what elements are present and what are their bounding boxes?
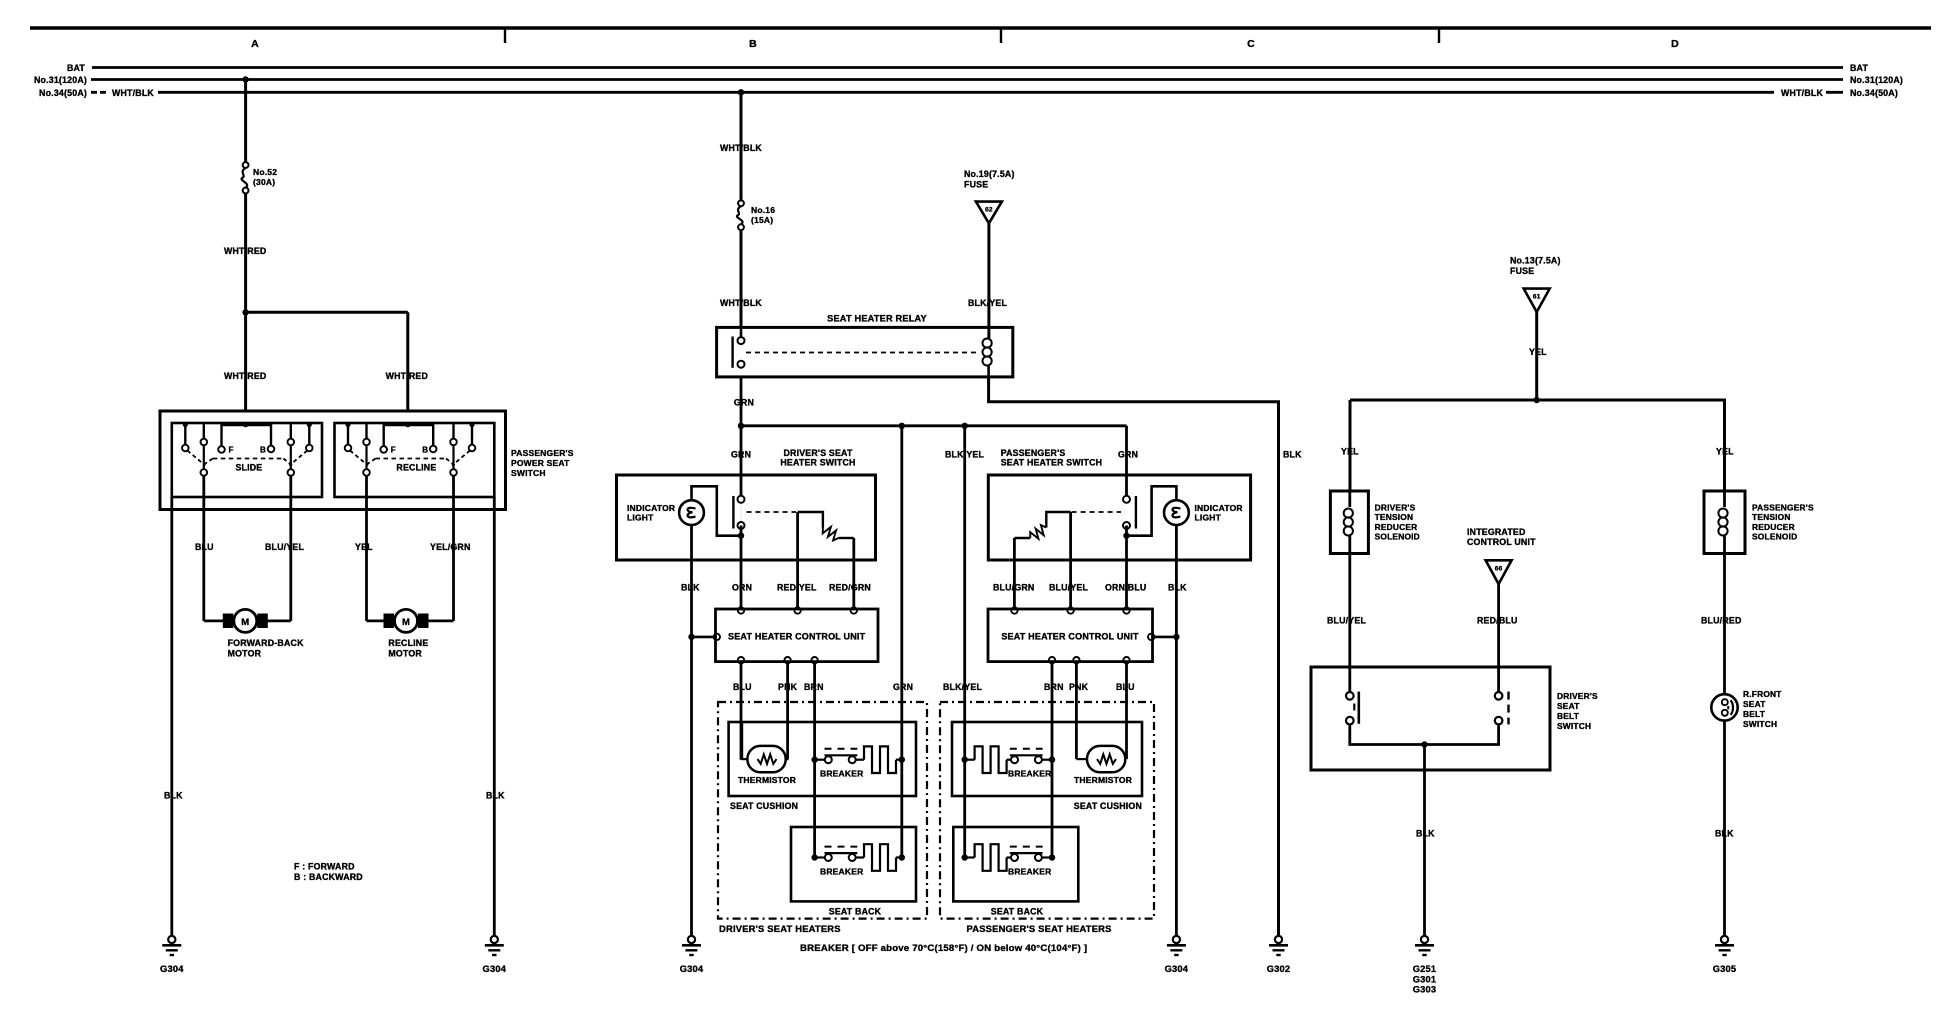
svg-text:YEL: YEL	[1716, 447, 1734, 457]
svg-text:WHT/BLK: WHT/BLK	[720, 143, 762, 153]
svg-text:REDUCER: REDUCER	[1375, 522, 1418, 532]
passenger thermistor leads	[1075, 750, 1078, 759]
wire GRN into passenger's switch	[1125, 426, 1128, 497]
wire YEL/GRN	[452, 476, 455, 615]
svg-text:FUSE: FUSE	[964, 180, 988, 190]
svg-text:WHT/BLK: WHT/BLK	[112, 88, 154, 98]
wire BLU/YEL (dash corner down)	[1069, 512, 1072, 608]
svg-text:SOLENOID: SOLENOID	[1752, 532, 1797, 542]
svg-text:LIGHT: LIGHT	[627, 513, 654, 523]
passenger indicator light bulb	[1164, 500, 1189, 525]
svg-text:BLU: BLU	[195, 542, 214, 552]
svg-text:RED/YEL: RED/YEL	[777, 583, 817, 593]
svg-text:GRN: GRN	[893, 682, 913, 692]
section tick B-C	[1000, 28, 1002, 43]
driver control unit terminals top	[738, 607, 744, 613]
svg-text:ORN: ORN	[732, 583, 752, 593]
svg-text:YEL: YEL	[355, 542, 373, 552]
passenger seat back breaker	[962, 854, 968, 860]
svg-text:TENSION: TENSION	[1375, 512, 1414, 522]
passenger bulb upper loop wire	[1129, 486, 1176, 535]
top border line	[30, 26, 1931, 30]
wire YEL fuse to split	[1535, 312, 1538, 400]
svg-text:RED/GRN: RED/GRN	[829, 583, 871, 593]
passenger's seat heaters dashed box	[940, 702, 1154, 919]
SLIDE left bracket	[184, 423, 186, 445]
svg-text:G251: G251	[1413, 964, 1437, 974]
svg-text:No.16: No.16	[751, 205, 775, 215]
svg-text:DRIVER'S SEAT HEATERS: DRIVER'S SEAT HEATERS	[719, 923, 841, 934]
svg-text:YEL: YEL	[1529, 347, 1547, 357]
svg-text:BAT: BAT	[67, 63, 85, 73]
node WHT/RED split	[242, 309, 248, 315]
svg-text:BELT: BELT	[1743, 709, 1766, 719]
wire BLU/YEL solenoid to belt switch	[1348, 554, 1351, 693]
wire RED/GRN down	[852, 538, 855, 608]
svg-text:No.31(120A): No.31(120A)	[1850, 75, 1903, 85]
svg-text:SEAT BACK: SEAT BACK	[991, 907, 1044, 917]
svg-text:C: C	[1247, 38, 1255, 50]
svg-text:ORN/BLU: ORN/BLU	[1105, 583, 1146, 593]
bus BAT	[92, 66, 1843, 69]
svg-text:BREAKER: BREAKER	[820, 866, 863, 876]
svg-text:D: D	[1671, 38, 1679, 50]
SLIDE center bracket	[222, 425, 272, 447]
ground G304 passenger switch	[1173, 936, 1180, 943]
svg-text:PASSENGER'S: PASSENGER'S	[511, 448, 574, 458]
wire BRN cushion to back passenger	[1051, 760, 1054, 858]
fuse No.19 triangle	[976, 202, 1002, 224]
svg-text:B: B	[749, 38, 757, 50]
wire GRN relay output	[740, 377, 743, 426]
svg-text:REDUCER: REDUCER	[1752, 522, 1795, 532]
wire split horizontal	[246, 311, 408, 314]
svg-text:WHT/RED: WHT/RED	[224, 371, 266, 381]
passenger cushion breaker	[962, 757, 968, 763]
svg-text:No.13(7.5A): No.13(7.5A)	[1510, 256, 1561, 266]
ground G302	[1275, 936, 1282, 943]
wire YEL right branch	[1723, 400, 1726, 491]
driver's seat heaters dashed box	[718, 702, 927, 919]
svg-text:BLK/YEL: BLK/YEL	[943, 682, 982, 692]
wire RED/YEL (dash corner down)	[796, 512, 799, 608]
wire YEL horizontal	[1350, 399, 1726, 402]
svg-text:(15A): (15A)	[751, 215, 773, 225]
passenger switch dashed arm	[1072, 511, 1121, 513]
motor leads	[202, 615, 205, 621]
wire WHT/RED right branch	[406, 312, 409, 411]
svg-text:HEATER SWITCH: HEATER SWITCH	[780, 457, 855, 467]
bus No.31(120A)	[91, 78, 1843, 81]
svg-text:SEAT CUSHION: SEAT CUSHION	[730, 801, 798, 811]
svg-text:BAT: BAT	[1850, 63, 1868, 73]
wire YEL	[365, 476, 368, 615]
wire WHT/RED fuse to split	[244, 193, 247, 312]
ground G304 recline	[491, 936, 498, 943]
section tick C-D	[1438, 28, 1440, 43]
passenger control unit terminals top	[1011, 607, 1017, 613]
passenger control unit right terminal wire	[1148, 634, 1154, 640]
wire BLK right (recline ground)	[493, 497, 496, 936]
driver control unit left terminal wire	[688, 634, 694, 640]
RECLINE movable contact dashes	[376, 458, 447, 460]
wire WHT/BLK bus to fuse No.16	[740, 92, 743, 200]
svg-text:BLU/GRN: BLU/GRN	[993, 583, 1034, 593]
svg-text:BLK: BLK	[1283, 450, 1302, 460]
bus No.34(50A) WHT/BLK	[158, 91, 1774, 94]
svg-text:No.52: No.52	[253, 167, 277, 177]
wire BLK passenger bulb to ground	[1175, 525, 1178, 936]
svg-text:G301: G301	[1413, 974, 1437, 984]
svg-text:BLU: BLU	[733, 682, 752, 692]
driver indicator light bulb	[679, 500, 704, 525]
driver seat back breaker	[811, 854, 817, 860]
svg-text:SWITCH: SWITCH	[511, 468, 546, 478]
wire BLK/YEL cushion to back	[963, 760, 966, 858]
svg-text:61: 61	[1533, 294, 1541, 301]
svg-text:B: B	[422, 446, 428, 455]
node on bus No.31	[242, 76, 248, 82]
svg-text:BLU/YEL: BLU/YEL	[1327, 616, 1366, 626]
wire BLK bulb to ground	[690, 525, 693, 936]
svg-text:No.31(120A): No.31(120A)	[34, 75, 87, 85]
svg-text:DRIVER'S: DRIVER'S	[1375, 503, 1416, 513]
wire BLK belt switch to ground	[1423, 745, 1426, 937]
SLIDE movable contact dashes	[213, 458, 283, 460]
wire BLU/GRN down	[1013, 538, 1016, 608]
svg-text:G302: G302	[1267, 964, 1291, 974]
svg-text:GRN: GRN	[1118, 450, 1138, 460]
svg-text:SOLENOID: SOLENOID	[1375, 532, 1420, 542]
node WHT/BLK on bus	[738, 89, 744, 95]
svg-text:SEAT HEATER RELAY: SEAT HEATER RELAY	[827, 314, 927, 324]
wire BLK left (slide ground)	[170, 497, 173, 936]
node passenger bulb loop	[1123, 533, 1129, 539]
node bulb loop to main	[738, 533, 744, 539]
RECLINE center bracket	[384, 425, 434, 447]
svg-text:INDICATOR: INDICATOR	[627, 503, 675, 513]
ground G304 driver switch	[688, 936, 695, 943]
svg-text:BLU/YEL: BLU/YEL	[1049, 583, 1088, 593]
passenger's power seat switch outer box	[160, 411, 506, 510]
svg-text:BLK: BLK	[486, 791, 505, 801]
svg-text:BLK/YEL: BLK/YEL	[968, 298, 1007, 308]
svg-text:SEAT: SEAT	[1743, 699, 1766, 709]
passenger resistor network	[1046, 512, 1070, 528]
svg-text:THERMISTOR: THERMISTOR	[738, 775, 796, 785]
driver switch dashed arm	[747, 511, 797, 513]
svg-text:G303: G303	[1413, 985, 1437, 995]
svg-text:G304: G304	[1165, 964, 1189, 974]
svg-text:FORWARD-BACK: FORWARD-BACK	[228, 638, 304, 648]
node YEL split	[1534, 397, 1540, 403]
wire WHT/RED left branch	[244, 312, 247, 411]
RECLINE common contacts	[363, 469, 370, 476]
node belt switch ground	[1421, 741, 1427, 747]
svg-text:G304: G304	[483, 964, 507, 974]
RECLINE input junction	[405, 422, 411, 428]
svg-text:B : BACKWARD: B : BACKWARD	[294, 872, 363, 882]
svg-text:G304: G304	[680, 964, 704, 974]
svg-text:66: 66	[1495, 565, 1503, 572]
svg-text:R.FRONT: R.FRONT	[1743, 689, 1782, 699]
driver thermistor	[747, 746, 785, 772]
driver seat cushion box	[729, 722, 916, 796]
wire BLU	[202, 476, 205, 615]
motor leads	[365, 615, 368, 621]
svg-text:MOTOR: MOTOR	[228, 649, 262, 659]
SLIDE input junction	[243, 422, 249, 428]
r.front seat belt switch	[1711, 694, 1737, 720]
svg-text:PASSENGER'S: PASSENGER'S	[1752, 503, 1814, 513]
driver's seat heater switch box	[617, 475, 876, 560]
svg-text:SWITCH: SWITCH	[1557, 721, 1591, 731]
wire BRN cushion to back	[813, 760, 816, 858]
RECLINE switch box	[335, 423, 495, 497]
svg-text:BLK: BLK	[164, 791, 183, 801]
svg-text:M: M	[402, 617, 410, 628]
svg-text:RED/BLU: RED/BLU	[1477, 616, 1518, 626]
svg-text:No.19(7.5A): No.19(7.5A)	[964, 169, 1015, 179]
svg-text:RECLINE: RECLINE	[388, 638, 428, 648]
svg-text:BLK: BLK	[1416, 829, 1435, 839]
svg-text:SWITCH: SWITCH	[1743, 719, 1777, 729]
svg-text:RECLINE: RECLINE	[396, 463, 436, 473]
svg-text:THERMISTOR: THERMISTOR	[1074, 775, 1132, 785]
svg-text:SEAT HEATER SWITCH: SEAT HEATER SWITCH	[1001, 457, 1103, 467]
driver switch contacts	[738, 496, 745, 503]
svg-text:BLK: BLK	[1715, 829, 1734, 839]
RECLINE left bracket	[347, 423, 349, 445]
ground G304 left	[168, 936, 175, 943]
svg-text:F: F	[391, 446, 396, 455]
wire GRN into driver's switch	[740, 426, 743, 496]
relay coil	[983, 339, 992, 348]
driver control unit terminals bottom	[738, 657, 744, 663]
SLIDE switch box	[172, 423, 322, 497]
driver seat back box	[791, 827, 916, 901]
svg-text:PNK: PNK	[1069, 682, 1089, 692]
svg-text:PASSENGER'S SEAT HEATERS: PASSENGER'S SEAT HEATERS	[967, 923, 1112, 934]
svg-text:BLK: BLK	[1168, 583, 1187, 593]
svg-text:F: F	[229, 446, 234, 455]
seat heater relay box	[717, 327, 1013, 377]
svg-text:SEAT: SEAT	[1557, 701, 1580, 711]
svg-text:CONTROL UNIT: CONTROL UNIT	[1467, 537, 1536, 547]
wire GRN cushion to back	[900, 760, 903, 858]
svg-text:(30A): (30A)	[253, 177, 275, 187]
svg-text:BREAKER: BREAKER	[1008, 769, 1051, 779]
wire WHT/RED from bus to fuse No.52	[244, 80, 247, 163]
integrated control unit triangle	[1486, 560, 1512, 584]
svg-text:F : FORWARD: F : FORWARD	[294, 862, 355, 872]
passenger solenoid coil	[1723, 491, 1726, 507]
relay switch contacts	[738, 337, 745, 344]
svg-text:INDICATOR: INDICATOR	[1195, 503, 1243, 513]
wire BLK/YEL fuse No.19 to relay coil	[987, 223, 990, 338]
svg-text:WHT/RED: WHT/RED	[224, 246, 266, 256]
passenger seat cushion box	[952, 722, 1142, 796]
svg-text:A: A	[251, 38, 259, 50]
fuse No.52 (30A)	[243, 162, 249, 168]
ground G251 G301 G303	[1421, 936, 1428, 943]
svg-text:SEAT BACK: SEAT BACK	[829, 907, 882, 917]
svg-text:WHT/BLK: WHT/BLK	[1781, 88, 1823, 98]
svg-text:WHT/BLK: WHT/BLK	[720, 298, 762, 308]
svg-text:No.34(50A): No.34(50A)	[1850, 88, 1898, 98]
svg-text:SEAT HEATER CONTROL UNIT: SEAT HEATER CONTROL UNIT	[1001, 632, 1139, 642]
driver solenoid coil	[1348, 491, 1351, 507]
wire RED/BLU ICU to belt switch	[1497, 584, 1500, 692]
node GRN drop to driver heater	[899, 423, 905, 429]
SLIDE common contacts	[201, 469, 208, 476]
wires BRN PNK BLU to passenger heaters	[1051, 663, 1054, 759]
wire ORN switch output	[740, 526, 743, 609]
passenger thermistor	[1087, 746, 1125, 772]
svg-text:BREAKER: BREAKER	[820, 769, 863, 779]
fuse No.16 (15A)	[738, 200, 744, 206]
passenger seat back box	[953, 827, 1078, 901]
passenger seat heater control unit box	[988, 609, 1153, 662]
wire BLK r.front to ground	[1723, 721, 1726, 936]
svg-text:YEL/GRN: YEL/GRN	[430, 542, 471, 552]
wire GRN distribution bus	[741, 424, 1127, 427]
node GRN junction	[738, 423, 744, 429]
RECLINE right bracket	[452, 423, 454, 439]
relay dashed actuator line	[746, 352, 979, 354]
svg-text:PNK: PNK	[778, 682, 798, 692]
svg-text:TENSION: TENSION	[1752, 512, 1791, 522]
driver's seat belt switch box	[1311, 667, 1550, 770]
svg-text:LIGHT: LIGHT	[1195, 513, 1222, 523]
wires BLU PNK BRN to heaters	[740, 663, 743, 759]
SLIDE right bracket	[290, 423, 292, 439]
svg-text:SEAT CUSHION: SEAT CUSHION	[1074, 801, 1142, 811]
svg-text:SLIDE: SLIDE	[235, 463, 262, 473]
svg-text:MOTOR: MOTOR	[388, 649, 422, 659]
svg-text:M: M	[241, 617, 249, 628]
wire BLU/YEL	[289, 476, 292, 615]
wire ORN/BLU switch output	[1125, 526, 1128, 609]
svg-text:No.34(50A): No.34(50A)	[39, 88, 87, 98]
svg-text:FUSE: FUSE	[1510, 266, 1534, 276]
section tick A-B	[504, 28, 506, 43]
fuse No.13 triangle	[1524, 289, 1550, 312]
wire GRN to driver seat heater	[900, 426, 903, 760]
driver belt switch bottom wires	[1350, 724, 1499, 744]
svg-text:G305: G305	[1713, 964, 1737, 974]
passenger's tension reducer solenoid box	[1704, 491, 1745, 554]
wire relay coil to BLK ground run	[989, 377, 1279, 936]
svg-text:BLU/YEL: BLU/YEL	[265, 542, 304, 552]
driver seat heater control unit box	[716, 609, 879, 662]
svg-text:DRIVER'S: DRIVER'S	[1557, 691, 1598, 701]
svg-text:62: 62	[985, 207, 993, 214]
svg-text:BRN: BRN	[1044, 682, 1064, 692]
svg-text:BREAKER [ OFF above 70°C(158°F: BREAKER [ OFF above 70°C(158°F) / ON bel…	[800, 943, 1087, 954]
driver thermistor leads	[740, 722, 743, 759]
wire YEL left branch	[1349, 400, 1352, 491]
node BLK/YEL drop	[962, 423, 968, 429]
svg-text:INTEGRATED: INTEGRATED	[1467, 527, 1526, 537]
wire BLK/YEL to passenger seat heater	[963, 426, 966, 760]
passenger's seat heater switch box	[988, 475, 1250, 560]
svg-text:GRN: GRN	[731, 450, 751, 460]
svg-text:G304: G304	[160, 964, 184, 974]
svg-text:YEL: YEL	[1341, 447, 1359, 457]
svg-text:BLK: BLK	[681, 583, 700, 593]
svg-text:B: B	[260, 446, 266, 455]
driver bulb upper loop wire	[692, 486, 739, 535]
svg-text:WHT/RED: WHT/RED	[386, 371, 428, 381]
passenger switch contacts	[1123, 496, 1130, 503]
svg-text:BELT: BELT	[1557, 711, 1580, 721]
driver belt switch right contact	[1495, 692, 1503, 700]
svg-text:BRN: BRN	[804, 682, 824, 692]
passenger control unit terminals bottom	[1049, 657, 1055, 663]
wire BLU/RED solenoid to belt switch	[1723, 554, 1726, 695]
driver resistor network	[798, 512, 823, 528]
svg-text:BLU: BLU	[1116, 682, 1135, 692]
driver cushion breaker	[811, 757, 817, 763]
driver's tension reducer solenoid box	[1330, 491, 1368, 554]
svg-text:POWER SEAT: POWER SEAT	[511, 458, 570, 468]
svg-text:BLU/RED: BLU/RED	[1701, 616, 1742, 626]
ground G305	[1721, 936, 1728, 943]
wire WHT/BLK fuse to relay	[740, 230, 743, 327]
svg-text:SEAT HEATER CONTROL UNIT: SEAT HEATER CONTROL UNIT	[728, 632, 866, 642]
svg-text:BREAKER: BREAKER	[1008, 866, 1051, 876]
driver belt switch left contact	[1346, 692, 1354, 700]
svg-text:GRN: GRN	[734, 398, 754, 408]
